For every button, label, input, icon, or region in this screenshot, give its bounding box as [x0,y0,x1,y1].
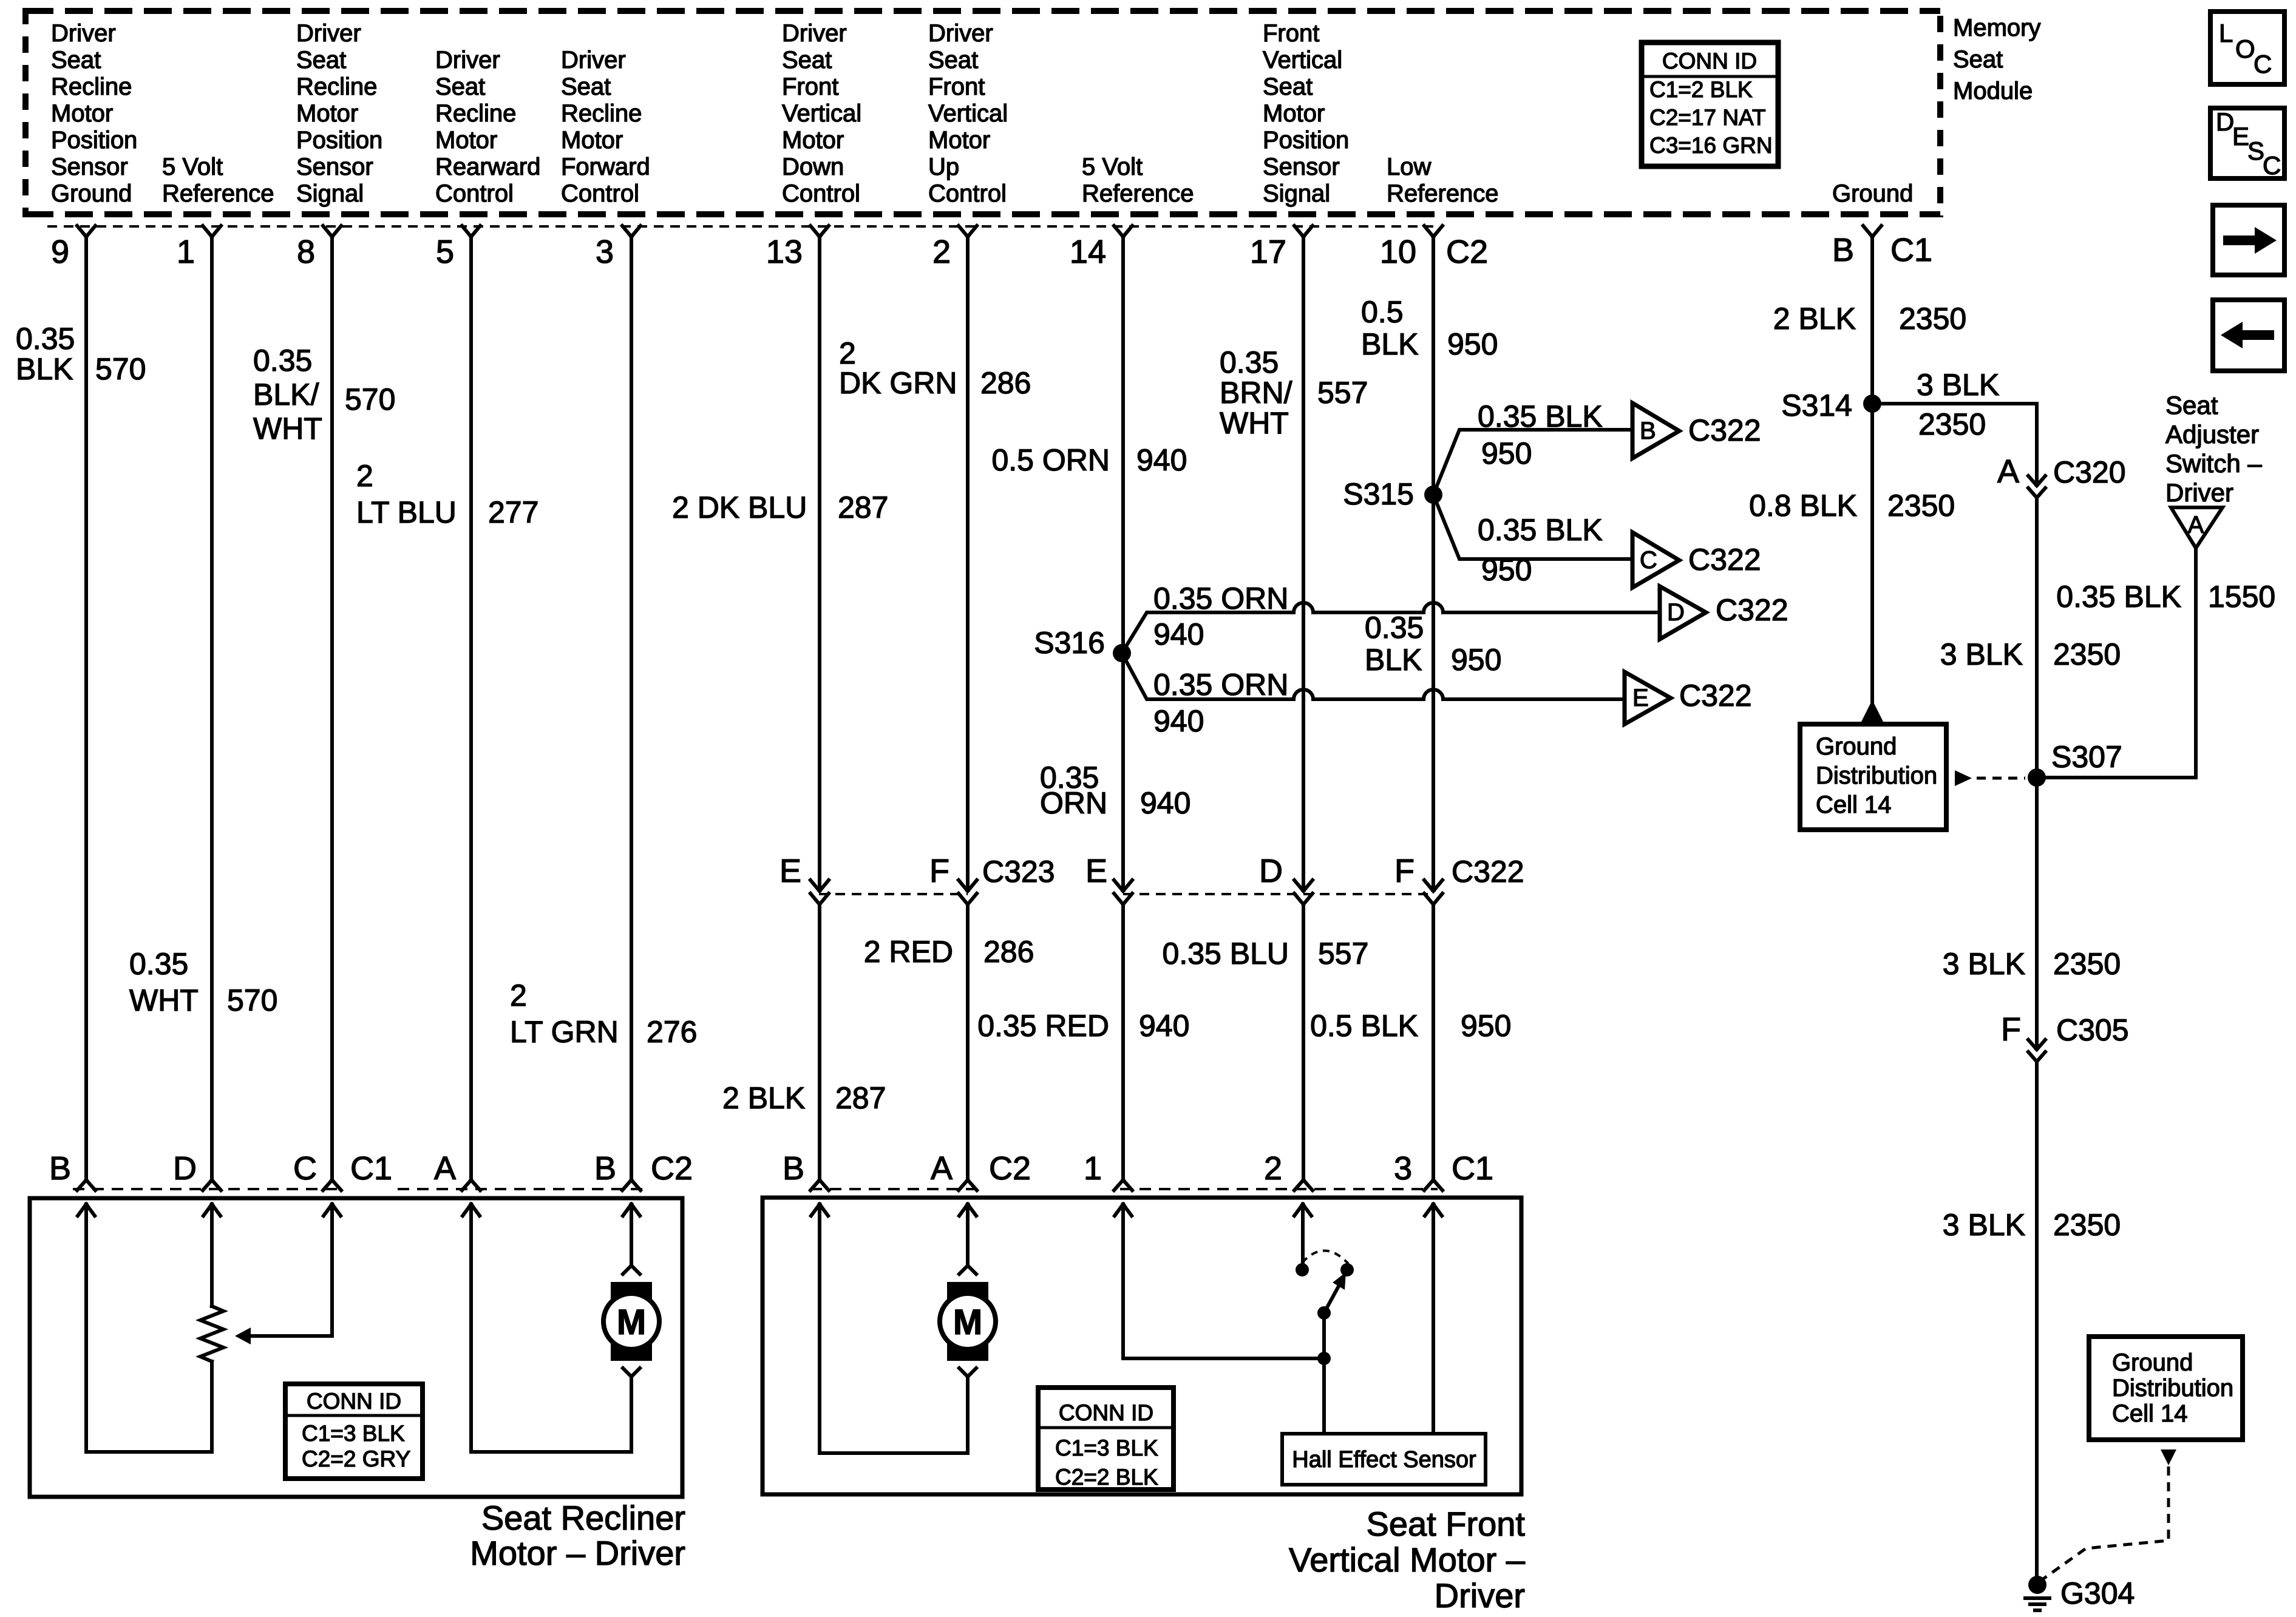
svg-text:0.35 BLK: 0.35 BLK [1478,399,1603,433]
wire label 0.35 BLK/WHT 570 (pin 8) [253,344,395,446]
potentiometer (recline position sensor) [200,1204,223,1452]
svg-text:BRN/: BRN/ [1220,376,1292,410]
svg-text:BLK: BLK [1365,643,1422,677]
svg-text:3 BLK: 3 BLK [1943,947,2025,981]
svg-text:17: 17 [1250,234,1286,270]
pin 9 function label [51,20,137,207]
svg-text:Seat: Seat [435,73,485,100]
wire 2 inside box [1301,1204,1305,1263]
svg-text:Ground: Ground [1832,180,1913,207]
pin 14 terminal fork [1114,226,1132,237]
svg-text:2: 2 [932,234,951,270]
svg-text:C1=3 BLK: C1=3 BLK [302,1421,405,1446]
svg-text:Reference: Reference [162,180,274,207]
svg-text:286: 286 [983,935,1034,969]
svg-text:0.35 ORN: 0.35 ORN [1153,581,1288,615]
ground G304 [2023,1576,2135,1610]
svg-text:Motor: Motor [435,127,497,154]
svg-text:0.8 BLK: 0.8 BLK [1749,489,1857,523]
pin 13 function label [782,20,861,207]
wire label 0.35 BLK 950 (pin 10 mid) [1365,611,1501,677]
wire 570 (pin 9) [84,237,88,1180]
svg-text:Recline: Recline [296,73,377,100]
svg-text:F: F [929,853,949,889]
svg-text:Driver: Driver [561,47,626,73]
input arrow (wire x=1350) [811,1204,828,1216]
splice S307 [2028,740,2122,787]
svg-text:940: 940 [1153,704,1204,738]
svg-text:950: 950 [1481,553,1532,587]
svg-text:BLK/: BLK/ [253,378,319,412]
switch contact (wire 2 end) [1296,1263,1309,1276]
svg-text:0.5 BLK: 0.5 BLK [1310,1009,1418,1043]
svg-text:Hall Effect Sensor: Hall Effect Sensor [1292,1447,1476,1473]
svg-text:Low: Low [1387,154,1431,180]
wire B-motor bottom link [820,1451,968,1455]
Seat Front Vertical Motor - Driver (component box) [763,1198,1521,1494]
svg-text:C323: C323 [982,855,1055,889]
wire B-D bottom link [86,1450,212,1454]
connector C322 terminal B (triangle) [1632,403,1761,458]
svg-text:C1=2 BLK: C1=2 BLK [1649,77,1753,102]
svg-text:2350: 2350 [1918,407,1986,441]
svg-text:M: M [617,1303,646,1342]
wire label 0.5 ORN 940 (pin 14) [991,443,1187,477]
svg-text:Driver: Driver [1435,1576,1525,1615]
svg-text:C322: C322 [1679,679,1752,713]
svg-text:C2=2 BLK: C2=2 BLK [1055,1465,1158,1490]
svg-text:C320: C320 [2053,455,2126,489]
svg-text:950: 950 [1447,327,1498,361]
svg-text:Cell 14: Cell 14 [2112,1400,2188,1427]
svg-text:570: 570 [227,983,277,1017]
svg-text:S307: S307 [2051,740,2122,774]
svg-text:Seat: Seat [782,47,832,73]
wire 2 BLK 2350 (pin B to S314) [1773,237,1966,404]
pin 10 function label [1387,154,1499,207]
svg-text:287: 287 [838,490,888,524]
LOC button [2210,12,2284,84]
svg-text:Cell 14: Cell 14 [1816,792,1892,818]
svg-text:Recline: Recline [561,100,642,127]
svg-text:Recline: Recline [51,73,132,100]
svg-text:5 Volt: 5 Volt [162,154,223,180]
svg-text:Position: Position [51,127,137,154]
back arrow button [2213,300,2284,371]
svg-text:950: 950 [1461,1009,1511,1043]
wire 557 (pin 17) [1302,237,1305,1180]
svg-text:S: S [2247,137,2264,165]
svg-text:2 BLK: 2 BLK [1773,302,1856,336]
svg-text:Control: Control [561,180,639,207]
svg-text:Up: Up [928,154,959,180]
svg-text:287: 287 [835,1081,886,1115]
svg-text:3 BLK: 3 BLK [1943,1208,2025,1242]
svg-text:LT GRN: LT GRN [510,1015,619,1049]
wire 570 (pin 1) [210,237,214,1180]
svg-text:A: A [1997,453,2019,490]
svg-text:14: 14 [1070,234,1106,270]
svg-text:CONN ID: CONN ID [1662,49,1757,73]
svg-text:0.35 RED: 0.35 RED [977,1009,1109,1043]
Seat Recliner Motor - Driver (component box) [30,1198,682,1497]
svg-text:A: A [2188,512,2204,538]
wire label 0.35 RED 940 (pin 14 lower) [977,1009,1189,1043]
front vertical motor connector face (dashed) [810,1188,1438,1190]
svg-text:277: 277 [488,495,538,529]
wire pivot to junction [1322,1313,1326,1358]
terminal B fork (x=142) [77,1180,95,1190]
svg-text:0.5: 0.5 [1361,295,1404,329]
svg-text:C322: C322 [1452,855,1524,889]
splice S316 [1034,626,1131,662]
svg-text:0.35: 0.35 [16,322,75,356]
switch fixed contact [1340,1263,1354,1276]
svg-text:Front: Front [928,73,985,100]
junction node [1317,1352,1331,1365]
svg-text:950: 950 [1451,643,1501,677]
svg-text:D: D [1667,599,1685,626]
wiper arrow (sensor signal) [235,1204,332,1344]
svg-text:C2: C2 [651,1150,693,1187]
svg-text:0.5 ORN: 0.5 ORN [991,443,1110,477]
svg-text:Signal: Signal [296,180,364,207]
svg-text:Vertical: Vertical [782,100,861,127]
pin 14 function label [1082,154,1194,207]
terminal 1 fork (x=1850) [1114,1180,1132,1190]
wire label 2 LT BLU 277 (pin 5) [356,459,538,529]
wire label 0.5 BLK 950 (pin 10) [1361,295,1498,361]
pin 17 terminal fork [1294,226,1313,237]
terminal B fork (x=1040) [622,1180,640,1190]
wire label 0.35 WHT 570 (pin 1) [129,947,277,1017]
svg-text:5 Volt: 5 Volt [1082,154,1143,180]
wire 3 BLK 2350 (S307 to C305) [1943,778,2121,1046]
svg-text:557: 557 [1317,376,1368,410]
caption Seat Front Vertical Motor - Driver [1289,1505,1526,1615]
CONN ID table (module) [1642,42,1778,166]
svg-text:Signal: Signal [1263,180,1330,207]
wire B inside recliner box [84,1204,88,1452]
svg-text:Seat: Seat [1953,46,2003,73]
svg-text:13: 13 [766,234,803,270]
svg-text:Down: Down [782,154,844,180]
svg-text:WHT: WHT [1220,406,1289,440]
wire 3 BLK 2350 (C305 to G304) [1943,1062,2121,1585]
svg-text:5: 5 [436,234,454,270]
svg-text:Sensor: Sensor [296,154,373,180]
svg-text:Vertical: Vertical [928,100,1008,127]
svg-text:C: C [2263,151,2281,180]
svg-text:F: F [2001,1011,2021,1048]
module name: Memory Seat Module [1953,15,2040,104]
wire label 2 RED 286 (pin 2 lower) [864,935,1034,969]
terminal D fork (x=349) [203,1180,221,1190]
svg-text:940: 940 [1139,1009,1189,1043]
svg-text:0.35: 0.35 [129,947,188,981]
pin 3 terminal fork [622,226,640,237]
wire 940 (pin 14) [1121,237,1125,1180]
motor M (seat front vertical motor) [940,1204,996,1453]
svg-text:G304: G304 [2060,1576,2135,1610]
svg-text:Sensor: Sensor [1263,154,1340,180]
svg-text:B: B [49,1150,71,1187]
DESC button [2210,107,2284,180]
wire label 2 LT GRN 276 (pin 3) [510,978,697,1049]
wire 287 (pin 13) [818,237,821,1180]
wire 0.35 BLK 1550 (S307 to seat adjuster switch) [2037,548,2275,778]
svg-text:2: 2 [1264,1150,1282,1187]
svg-text:2350: 2350 [2053,1208,2121,1242]
svg-text:Position: Position [296,127,382,154]
in-line connector C305 terminal F [2001,1011,2129,1062]
pin 9 terminal fork [77,226,95,237]
svg-text:Front: Front [782,73,838,100]
splice S315 [1343,477,1442,511]
svg-text:3: 3 [1394,1150,1412,1187]
input arrow (wire x=547) [324,1204,341,1216]
svg-text:940: 940 [1140,786,1190,820]
svg-text:C2: C2 [989,1150,1031,1187]
svg-text:C3=16 GRN: C3=16 GRN [1649,133,1773,158]
wire 0.35 BLK 950 to C322 C [1433,495,1631,587]
svg-text:Ground: Ground [51,180,132,207]
pin B function label [1832,180,1913,207]
svg-text:BLK: BLK [16,352,73,386]
svg-text:2350: 2350 [1899,302,1966,336]
motor M (seat recliner motor) [603,1204,659,1452]
svg-text:Seat: Seat [1263,73,1313,100]
wire 276 (pin 3) [630,237,633,1180]
svg-text:Seat: Seat [296,47,346,73]
svg-text:0.35: 0.35 [1220,345,1279,379]
svg-text:Sensor: Sensor [51,154,128,180]
svg-text:C: C [1640,547,1657,574]
wire 0.35 BLK 950 to C322 B [1433,399,1631,495]
input arrow (wire x=1594) [959,1204,976,1216]
connector C322 terminal E (triangle) [1625,672,1752,724]
svg-text:2350: 2350 [1887,489,1955,523]
svg-text:Seat: Seat [2165,391,2218,419]
dashed link to S307 [1955,770,2025,786]
svg-text:ORN: ORN [1040,786,1107,820]
input arrow (wire x=2146) [1294,1204,1311,1216]
svg-text:CONN ID: CONN ID [307,1389,401,1414]
terminal C fork (x=547) [323,1180,341,1190]
pin 3 function label [561,47,650,207]
svg-text:Driver: Driver [51,20,116,47]
switch travel arc (dashed) [1302,1250,1348,1264]
svg-text:Seat Front: Seat Front [1367,1505,1526,1543]
input arrow (wire x=1040) [623,1204,640,1216]
module connector C2 face (dashed line) [47,225,1433,228]
in-line connector C320 terminal A [1997,453,2126,498]
svg-text:1550: 1550 [2208,580,2275,614]
svg-text:8: 8 [297,234,315,270]
pin 10 terminal fork [1424,226,1442,237]
svg-text:Ground: Ground [2112,1349,2193,1376]
svg-text:2350: 2350 [2053,637,2121,671]
svg-text:C: C [293,1150,317,1187]
svg-text:Memory: Memory [1953,15,2040,41]
svg-text:0.35 BLK: 0.35 BLK [1478,513,1603,547]
svg-text:570: 570 [345,382,395,416]
pin 13 terminal fork [810,226,829,237]
svg-text:570: 570 [95,352,146,386]
svg-text:C2=2 GRY: C2=2 GRY [302,1446,410,1471]
svg-text:2: 2 [839,336,856,370]
svg-text:C322: C322 [1688,543,1761,577]
wire 3 BLK 2350 (C320 to S307) [1940,498,2121,778]
recliner connector face (dashed) [73,1188,642,1190]
svg-text:E: E [2232,122,2249,151]
terminal 2 fork (x=2147) [1294,1180,1313,1190]
svg-text:Vertical Motor –: Vertical Motor – [1289,1541,1526,1579]
svg-text:9: 9 [51,234,69,270]
svg-text:B: B [1832,232,1854,268]
svg-text:C: C [2254,50,2272,78]
pin 1 terminal fork [203,226,221,237]
svg-text:S314: S314 [1781,388,1852,422]
caption Seat Recliner Motor - Driver [470,1499,685,1572]
wire 0.35 ORN 940 to C322 D (with hops) [1122,581,1659,653]
svg-text:Recline: Recline [435,100,516,127]
svg-text:Motor: Motor [928,127,990,154]
forward arrow button [2213,205,2284,275]
svg-text:C305: C305 [2056,1013,2129,1047]
svg-text:O: O [2235,35,2255,63]
svg-text:2 BLK: 2 BLK [722,1081,805,1115]
Ground Distribution Cell 14 box (lower) [2089,1337,2243,1440]
svg-text:Driver: Driver [296,20,361,47]
svg-text:Motor – Driver: Motor – Driver [470,1534,685,1572]
svg-text:3: 3 [596,234,614,270]
svg-text:Driver: Driver [2165,478,2233,507]
svg-text:WHT: WHT [129,983,199,1017]
svg-text:E: E [1085,853,1107,889]
svg-text:Control: Control [928,180,1007,207]
wire 0.35 ORN 940 to C322 E (with hops) [1122,653,1623,738]
pin 5 terminal fork [462,226,480,237]
svg-text:Reference: Reference [1387,180,1499,207]
svg-text:LT BLU: LT BLU [356,495,457,529]
pin 8 function label [296,20,382,207]
terminal 3 fork (x=2361) [1424,1180,1442,1190]
wire junction to hall sensor [1322,1358,1326,1434]
svg-text:557: 557 [1318,937,1368,971]
svg-text:C1: C1 [350,1150,392,1187]
svg-text:3 BLK: 3 BLK [1940,637,2023,671]
wire label 0.35 BRN/WHT 557 (pin 17) [1220,345,1368,440]
svg-text:C322: C322 [1716,593,1788,627]
input arrow (wire x=2361) [1425,1204,1442,1216]
wire 950 (pin 10) [1432,237,1435,1180]
svg-text:2: 2 [510,978,527,1012]
pin 2 function label [928,20,1008,207]
terminal A fork (x=1594) [959,1180,977,1190]
input arrow (wire x=776) [463,1204,480,1216]
svg-text:Driver: Driver [928,20,993,47]
svg-text:Switch –: Switch – [2165,449,2262,478]
connector C322 terminal C (triangle) [1632,532,1761,588]
pin 5 function label [435,47,540,207]
Memory Seat Module boundary (dashed box) [25,8,1940,217]
svg-text:286: 286 [980,366,1031,400]
svg-text:2350: 2350 [2053,947,2121,981]
Seat Adjuster Switch - Driver label [2165,391,2262,507]
svg-text:F: F [1394,853,1415,889]
svg-text:D: D [173,1150,197,1187]
svg-text:1: 1 [1084,1150,1102,1187]
svg-text:2 DK BLU: 2 DK BLU [672,490,807,524]
in-line connector C323 (wires 13,2) [779,853,1055,904]
svg-text:Distribution: Distribution [1816,762,1937,789]
connector C322 terminal D (triangle) [1660,586,1788,639]
svg-text:Reference: Reference [1082,180,1194,207]
svg-text:Module: Module [1953,78,2033,104]
Ground Distribution Cell 14 box (upper) [1800,724,1946,830]
svg-text:C2=17 NAT: C2=17 NAT [1649,105,1766,130]
svg-text:Driver: Driver [435,47,500,73]
wire 0.8 BLK 2350 (S314 to ground distribution) [1749,404,1955,724]
svg-text:Distribution: Distribution [2112,1375,2233,1402]
svg-text:D: D [1259,853,1283,889]
wire label 0.35 ORN 940 (pin 14 mid) [1040,761,1190,820]
svg-text:0.35: 0.35 [253,344,312,378]
svg-text:0.35 ORN: 0.35 ORN [1153,668,1288,702]
svg-text:Seat: Seat [561,73,611,100]
svg-text:BLK: BLK [1361,327,1419,361]
svg-text:B: B [1640,418,1656,444]
svg-text:Seat: Seat [51,47,101,73]
svg-text:CONN ID: CONN ID [1059,1400,1153,1425]
svg-text:Driver: Driver [782,20,847,47]
svg-text:0.35 BLK: 0.35 BLK [2056,580,2181,614]
wire 570 (pin 8) [330,237,334,1180]
svg-text:0.35 BLU: 0.35 BLU [1163,937,1289,971]
switch arm with arrow [1324,1272,1346,1313]
wire A-motor bottom link [471,1450,631,1454]
svg-text:Motor: Motor [1263,100,1325,127]
svg-text:276: 276 [647,1015,697,1049]
svg-text:3 BLK: 3 BLK [1917,368,1999,402]
wire label 2 DK BLU 287 (pin 13) [672,490,888,524]
pin 1 function label [162,154,274,207]
svg-text:A: A [434,1150,456,1187]
terminal A fork (x=776) [462,1180,480,1190]
svg-text:Front: Front [1263,20,1319,47]
svg-text:Seat: Seat [928,47,978,73]
wire 3 inside box [1432,1204,1435,1434]
svg-text:1: 1 [177,234,195,270]
svg-text:C1: C1 [1890,232,1932,268]
svg-text:B: B [783,1150,804,1187]
svg-text:Ground: Ground [1816,733,1897,760]
svg-text:C1=3 BLK: C1=3 BLK [1055,1436,1158,1460]
svg-text:Control: Control [782,180,860,207]
svg-text:B: B [594,1150,616,1187]
svg-text:950: 950 [1481,436,1532,470]
switch pivot [1317,1306,1331,1320]
wire 286 (pin 2) [966,237,970,1180]
wire label 0.35 BLK 570 (pin 9) [16,322,146,386]
svg-text:0.35: 0.35 [1365,611,1424,645]
svg-text:Forward: Forward [561,154,650,180]
svg-text:Motor: Motor [51,100,113,127]
CONN ID table (front vertical) [1038,1388,1173,1490]
pin 2 terminal fork [959,226,977,237]
off-page connector A (seat adjuster switch) [2171,507,2223,548]
